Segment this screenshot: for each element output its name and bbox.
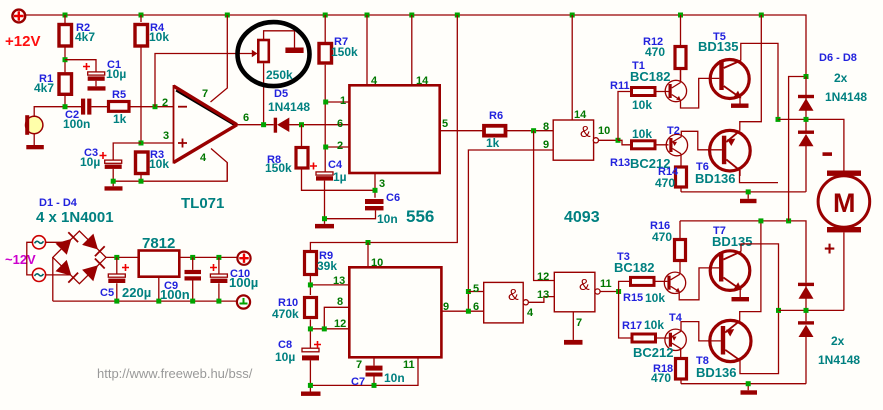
svg-text:BD135: BD135 <box>712 234 752 249</box>
wire gate2 out to gate3 pin13 <box>528 297 554 303</box>
junction node pin3 <box>139 141 144 146</box>
svg-text:+12V: +12V <box>5 33 40 50</box>
bridge rectifier diamond <box>53 231 106 284</box>
svg-text:10k: 10k <box>644 318 664 332</box>
wire 7812 output <box>179 256 237 258</box>
gate U2C output bubble <box>595 289 600 294</box>
ground T7 <box>732 297 750 301</box>
junction node gate2 pin5 <box>466 289 471 294</box>
resistor R11 <box>632 88 656 96</box>
svg-text:http://www.freeweb.hu/bss/: http://www.freeweb.hu/bss/ <box>97 366 253 381</box>
svg-text:10µ: 10µ <box>80 155 100 169</box>
svg-text:100n: 100n <box>63 117 90 131</box>
junction node gate2 pin6 <box>466 309 471 314</box>
svg-text:BD136: BD136 <box>695 171 735 186</box>
svg-text:6: 6 <box>243 112 249 124</box>
C4 plus sign <box>310 163 317 170</box>
resistor R2 <box>59 25 72 47</box>
junction node pin3 556 <box>373 188 378 193</box>
wire 556B pin7 <box>373 357 375 365</box>
bridge diode D3 <box>56 260 79 283</box>
wire 556B pin13 <box>310 275 349 296</box>
+12V supply terminal <box>12 10 25 23</box>
transistor T1 BC182 <box>665 80 686 101</box>
svg-text:5: 5 <box>473 283 479 295</box>
resistor R3 <box>136 152 149 174</box>
svg-text:12: 12 <box>537 271 549 283</box>
wire R7 column <box>324 15 326 172</box>
ground T5 <box>731 104 749 108</box>
resistor R6 <box>484 126 506 136</box>
regulator 7812 <box>139 251 180 277</box>
wire R16 column <box>679 221 681 274</box>
svg-text:2: 2 <box>162 97 168 109</box>
wire R13 branch <box>618 140 669 145</box>
junction node push-pull out <box>776 117 781 122</box>
svg-text:R6: R6 <box>489 110 503 122</box>
trimmer circle <box>238 22 310 86</box>
wire motor minus line <box>778 119 844 170</box>
wire diode chain lower <box>805 286 807 384</box>
svg-text:4: 4 <box>200 152 207 164</box>
wire T6 emitter to rail <box>740 15 762 131</box>
wire gate1 pin9 from 556B out <box>468 150 553 311</box>
junction node pin2 556 <box>323 145 328 150</box>
capacitor C5 <box>108 274 125 283</box>
wire lower ground line <box>681 379 806 390</box>
wire 556A pin14 <box>411 15 413 85</box>
svg-text:7812: 7812 <box>142 235 175 252</box>
svg-text:R17: R17 <box>622 320 642 332</box>
svg-text:39k: 39k <box>317 259 337 273</box>
svg-text:250k: 250k <box>266 68 293 82</box>
resistor R9 <box>305 252 317 275</box>
svg-text:1µ: 1µ <box>333 170 347 184</box>
wire T8 collector <box>740 310 779 373</box>
wire bridge plus <box>106 256 139 258</box>
diode D8a <box>798 283 814 299</box>
svg-text:C6: C6 <box>386 192 400 204</box>
wire T4 collector to R18 <box>680 349 682 357</box>
capacitor C9 <box>185 270 202 281</box>
wire 556B pin10 <box>367 243 369 268</box>
junction node R3 gnd <box>139 179 144 184</box>
wire mic input net <box>34 107 173 117</box>
junction node C3 gnd <box>111 179 116 184</box>
svg-text:D1 - D4: D1 - D4 <box>39 197 78 209</box>
svg-text:10k: 10k <box>149 30 169 44</box>
svg-text:M: M <box>833 188 856 218</box>
motor minus label <box>823 152 833 156</box>
C8 plus sign <box>314 341 321 348</box>
ground driver <box>740 199 757 203</box>
wire 4093 pin14 <box>571 15 573 120</box>
svg-text:220µ: 220µ <box>122 285 151 300</box>
svg-text:10k: 10k <box>645 291 665 305</box>
svg-text:14: 14 <box>416 75 429 87</box>
wire lower +12 line <box>680 221 806 283</box>
svg-text:7: 7 <box>576 317 582 329</box>
svg-text:R13: R13 <box>610 157 630 169</box>
wire opamp pin4 <box>211 149 227 182</box>
capacitor C4 <box>316 172 333 181</box>
junction node R1 bottom <box>63 104 68 109</box>
junction node output <box>261 122 266 127</box>
svg-text:150k: 150k <box>331 45 358 59</box>
svg-text:13: 13 <box>537 289 549 301</box>
transistor T6 BD136 <box>710 130 751 171</box>
junction node D6 top <box>804 74 809 79</box>
wire R15 branch <box>619 281 668 291</box>
wire analog ground line <box>113 163 227 182</box>
junction node +12 jog <box>786 218 791 223</box>
wire C8 ground line <box>310 357 418 391</box>
svg-text:C7: C7 <box>351 376 365 388</box>
svg-text:3: 3 <box>379 178 385 190</box>
wire T4 emitter to T8 base <box>681 322 721 341</box>
microphone <box>25 115 44 149</box>
wire C9 <box>192 257 194 301</box>
wire R17 branch <box>619 292 669 339</box>
wire gate2 pin5 <box>468 291 483 293</box>
resistor R13 <box>632 141 656 149</box>
svg-text:5: 5 <box>442 118 448 130</box>
svg-text:R15: R15 <box>623 292 643 304</box>
svg-text:11: 11 <box>403 359 415 371</box>
junction node C4 gnd <box>322 216 327 221</box>
svg-text:11: 11 <box>600 278 612 290</box>
transistor T8 BD136 <box>710 320 751 361</box>
junction node D5 cathode R8 <box>299 122 304 127</box>
output terminal ground <box>237 295 250 308</box>
junction node pin1 <box>323 100 328 105</box>
junction node +12 T8 <box>758 218 763 223</box>
svg-text:R11: R11 <box>610 80 630 92</box>
svg-text:1N4148: 1N4148 <box>818 353 860 367</box>
svg-text:14: 14 <box>574 109 587 121</box>
IC 556 timer A box <box>349 85 439 173</box>
svg-text:10µ: 10µ <box>275 350 295 364</box>
svg-text:R5: R5 <box>112 89 126 101</box>
svg-text:2: 2 <box>337 140 343 152</box>
gate U2A 4093 box <box>553 120 593 160</box>
trimmer arrow <box>252 50 258 57</box>
junction node C9 top <box>190 255 195 260</box>
svg-text:4: 4 <box>371 75 378 87</box>
resistor R8 <box>296 148 308 169</box>
svg-text:150k: 150k <box>265 161 292 175</box>
wire C3 branch <box>113 143 141 186</box>
svg-text:10n: 10n <box>384 371 405 385</box>
wire R2 column <box>64 15 66 107</box>
svg-text:10: 10 <box>371 257 383 269</box>
junction node gate1 out <box>616 138 621 143</box>
ground C4 <box>315 224 334 229</box>
wire motor plus line <box>779 233 844 311</box>
diode D5 1N4148 <box>274 118 290 133</box>
resistor R16 <box>675 240 686 261</box>
wire R4 column to pin3 <box>141 15 174 143</box>
svg-text:~12V: ~12V <box>5 252 36 267</box>
junction node driver gnd <box>746 189 751 194</box>
junction node motor plus diode <box>804 308 809 313</box>
svg-text:12: 12 <box>334 318 346 330</box>
wire C5 <box>116 257 118 301</box>
wire R11 branch <box>618 92 669 141</box>
svg-text:8: 8 <box>337 296 343 308</box>
ground C3 <box>105 186 123 190</box>
svg-text:4 x 1N4001: 4 x 1N4001 <box>36 209 114 226</box>
wire gate1 output <box>599 139 619 141</box>
junction node motor minus <box>804 117 809 122</box>
wire +12 jog from rail <box>789 77 806 221</box>
diode D6 <box>798 95 814 111</box>
diode D8b <box>798 321 814 337</box>
junction node C10 top <box>216 255 221 260</box>
transistor T3 BC182 <box>664 272 685 293</box>
wire R9 rail <box>310 15 457 250</box>
junction node rail C9 <box>190 299 195 304</box>
ground C1 <box>88 86 106 90</box>
transistor T7 BD135 <box>710 251 750 291</box>
transistor T4 BC212 <box>665 329 686 350</box>
wire R6 junction down to pin12 <box>534 131 555 281</box>
wire T2 emitter to T6 base <box>681 131 722 150</box>
resistor R7 <box>319 44 332 64</box>
gate U2A output bubble <box>593 138 598 143</box>
svg-text:2x: 2x <box>831 334 845 348</box>
svg-text:470: 470 <box>652 230 672 244</box>
capacitor C1 <box>88 72 105 81</box>
svg-text:4093: 4093 <box>564 209 600 226</box>
wire +12V top rail <box>25 15 806 77</box>
svg-text:BC212: BC212 <box>633 345 673 360</box>
svg-text:4: 4 <box>527 307 534 319</box>
capacitor C3 <box>105 160 122 169</box>
ground C8 <box>301 392 321 396</box>
svg-text:100µ: 100µ <box>229 275 258 290</box>
svg-text:&: & <box>580 124 591 141</box>
resistor R17 <box>632 334 656 342</box>
resistor R1 <box>59 74 72 95</box>
wire gate3 pin7 ground <box>572 312 574 340</box>
wire T1 emitter to T5 base <box>681 70 720 108</box>
junction node lower out <box>776 308 781 313</box>
wire 556B pin9 output <box>441 310 483 312</box>
wire gate3 output <box>600 291 619 293</box>
svg-text:2x: 2x <box>834 71 848 85</box>
capacitor C2 <box>81 99 91 115</box>
wire AC link <box>27 242 33 275</box>
svg-text:10: 10 <box>598 125 610 137</box>
wire T3 emitter to T7 base <box>679 268 719 300</box>
AC source lower <box>32 268 45 281</box>
resistor R10 <box>305 298 317 318</box>
svg-text:1: 1 <box>340 95 346 107</box>
op-amp U1 TL071 <box>174 85 238 164</box>
IC 556 timer B box <box>349 267 441 357</box>
svg-text:BD136: BD136 <box>696 365 736 380</box>
wire T5 emitter ground <box>739 98 741 104</box>
svg-text:7: 7 <box>202 88 208 100</box>
svg-text:+: + <box>824 239 835 260</box>
resistor R15 <box>631 277 655 285</box>
junction rail nodes <box>63 13 764 18</box>
gate U2B output bubble <box>523 300 528 305</box>
wire 556A pin5 to R6 <box>440 130 554 132</box>
transistor T5 BD135 <box>710 60 749 99</box>
svg-text:100n: 100n <box>160 287 190 302</box>
resistor R14 <box>676 167 687 187</box>
diode D7 <box>798 131 814 147</box>
wire diode chain upper <box>805 77 807 192</box>
svg-text:6: 6 <box>337 118 343 130</box>
wire driver ground line <box>681 187 806 199</box>
wire T7 emitter ground <box>739 289 741 297</box>
C3 plus sign <box>100 152 107 159</box>
transistor T2 BC212 <box>666 134 687 155</box>
svg-text:1N4148: 1N4148 <box>268 100 310 114</box>
capacitor C10 <box>210 274 227 283</box>
resistor R5 <box>109 102 130 112</box>
svg-text:C5: C5 <box>100 287 114 299</box>
svg-text:D6 - D8: D6 - D8 <box>819 52 857 64</box>
motor M1 <box>818 171 870 233</box>
junction node pin2 <box>153 104 158 109</box>
svg-text:&: & <box>508 287 519 304</box>
svg-text:&: & <box>579 277 590 294</box>
gate U2C 4093 box <box>554 272 595 312</box>
svg-text:470k: 470k <box>272 307 299 321</box>
svg-text:470: 470 <box>645 45 665 59</box>
C10 plus sign <box>210 264 217 271</box>
wire opamp pin7 <box>211 15 228 102</box>
junction node C7 gnd <box>372 383 377 388</box>
resistor R4 <box>135 25 148 47</box>
capacitor C7 <box>366 366 383 377</box>
wire feedback <box>155 54 264 125</box>
wire R8 branch <box>302 125 376 198</box>
svg-text:10k: 10k <box>632 127 652 141</box>
svg-text:BD135: BD135 <box>698 39 738 54</box>
wire bridge minus to rail <box>53 257 237 301</box>
capacitor C6 <box>365 199 384 210</box>
gate U2B 4093 box <box>484 282 524 323</box>
junction node R1/R2 <box>63 57 68 62</box>
junction node lower gnd <box>746 381 751 386</box>
output terminal plus <box>237 252 250 265</box>
junction node R6 out <box>531 128 536 133</box>
wire T6 collector <box>740 170 779 183</box>
junction node rail C10 <box>216 299 221 304</box>
svg-text:T2: T2 <box>667 125 680 137</box>
ground lower driver <box>741 390 758 394</box>
junction node gate3 out <box>616 289 621 294</box>
junction node rail 7812 <box>156 299 161 304</box>
AC source upper <box>32 236 45 249</box>
svg-text:1k: 1k <box>113 112 127 126</box>
svg-text:4k7: 4k7 <box>34 81 54 95</box>
wire AC1 to bridge <box>46 241 69 243</box>
svg-text:BC182: BC182 <box>630 69 670 84</box>
C5 plus sign <box>122 264 129 271</box>
svg-text:TL071: TL071 <box>181 195 224 212</box>
svg-text:470: 470 <box>655 176 675 190</box>
wire C4 C6 ground <box>325 181 376 224</box>
svg-text:470: 470 <box>651 371 671 385</box>
svg-text:D5: D5 <box>274 88 288 100</box>
wire opamp output net <box>237 124 349 126</box>
svg-text:556: 556 <box>406 207 434 226</box>
junction node pin13 <box>308 282 313 287</box>
svg-text:9: 9 <box>543 139 549 151</box>
junction node pin12 R10 <box>308 326 313 331</box>
svg-text:1k: 1k <box>486 136 500 150</box>
wire C1 branch <box>65 60 96 87</box>
potentiometer P1 250k <box>258 31 303 62</box>
wire T7 collector <box>741 244 779 311</box>
ground gate3 <box>564 340 583 345</box>
junction node C5 top <box>114 255 119 260</box>
bridge diode D1 <box>56 232 79 255</box>
svg-text:10k: 10k <box>632 98 652 112</box>
svg-text:BC182: BC182 <box>614 260 654 275</box>
svg-text:13: 13 <box>333 275 345 287</box>
wire 556B pin8 pin12 <box>310 307 349 348</box>
svg-text:7: 7 <box>356 359 362 371</box>
svg-text:4k7: 4k7 <box>75 30 95 44</box>
junction node C8 gnd <box>308 383 313 388</box>
wire T8 emitter to +12 <box>740 221 761 321</box>
junction node pin10 <box>366 240 371 245</box>
resistor R12 <box>675 47 686 69</box>
wire 7812 gnd pin <box>158 277 160 301</box>
capacitor C8 <box>302 348 319 360</box>
wire AC2 to bridge <box>46 274 71 276</box>
wire T2 collector to R14 <box>680 154 682 166</box>
svg-text:10k: 10k <box>149 157 169 171</box>
wire T5 collector <box>741 43 778 119</box>
resistor R18 <box>676 359 687 380</box>
wire 556A pin1 pin2 column <box>326 102 350 147</box>
junction node rail C5 <box>114 299 119 304</box>
bridge diode D4 <box>82 259 105 282</box>
svg-text:10µ: 10µ <box>106 67 126 81</box>
junction node pin8 pin12 <box>322 326 327 331</box>
svg-text:1N4148: 1N4148 <box>825 90 867 104</box>
wire R12 column <box>680 15 682 82</box>
svg-text:3: 3 <box>163 130 169 142</box>
svg-text:10n: 10n <box>377 212 398 226</box>
wire C10 <box>218 257 220 301</box>
svg-text:6: 6 <box>473 301 479 313</box>
wire 556A pin4 <box>366 15 368 85</box>
svg-text:8: 8 <box>543 121 549 133</box>
bridge diode D2 <box>82 234 105 257</box>
C1 plus sign <box>83 63 90 70</box>
